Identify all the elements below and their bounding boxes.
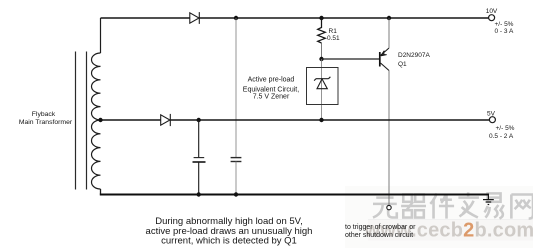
terminal 5V output [489,117,495,123]
note During abnormally high load on 5V... [146,216,313,247]
svg-text:Main Transformer: Main Transformer [19,119,73,126]
svg-text:0 - 3 A: 0 - 3 A [495,28,514,35]
char 件 [430,193,454,218]
note to trigger of crowbar or other shutdown circuit [345,224,416,239]
node dot 5V rail / zener [319,118,323,122]
svg-text:Active pre-load: Active pre-load [248,76,295,83]
wire winding top to 10V rail [100,18,102,53]
wire C2 bottom [235,161,237,194]
svg-text:other shutdown circuit: other shutdown circuit [345,232,413,239]
svg-text:+/- 5%: +/- 5% [496,125,515,132]
wire Q1 collector down to trigger terminal [388,71,390,206]
char 交 [458,192,479,217]
wire C1 vertical bottom [198,162,200,195]
resistor R1 [318,18,326,43]
wire C2 vertical (10V to plate) [235,18,237,157]
svg-text:current, which is detected by: current, which is detected by Q1 [161,236,297,247]
wire 5V rail [101,119,161,121]
node dot 5V rail / C1 [197,118,201,122]
wire base of Q1 [322,58,380,60]
terminal trigger output [387,205,391,209]
label Flyback Main Transformer [19,111,73,126]
char 网 [511,194,533,218]
svg-text:0.5 - 2 A: 0.5 - 2 A [489,133,514,140]
wire 10V top rail [101,17,190,19]
preload equivalent box [307,68,339,105]
wire zener vertical [321,59,323,120]
transformer T1 secondary winding [91,53,100,189]
char 易 [484,193,503,218]
node dot winding center tap [98,118,102,122]
node junction dot top rail / Q1 emitter [387,16,391,20]
svg-text:to trigger of crowbar or: to trigger of crowbar or [345,224,416,231]
node dot return rail / C1 [197,192,201,196]
node dot return rail / C2 [234,192,238,196]
zener diode DZ [314,77,330,89]
char 器 [401,194,426,217]
wire winding bottom to return rail [100,189,102,195]
wire Q1 emitter to 10V rail [388,18,390,48]
transformer T1 core [76,52,87,190]
svg-text:10V: 10V [486,8,498,15]
svg-text:Flyback: Flyback [32,111,56,118]
capacitor C1 [193,158,206,162]
svg-text:5V: 5V [487,111,496,118]
svg-text:+/- 5%: +/- 5% [495,21,514,28]
wire return (ground) rail [100,193,489,195]
svg-text:D2N2907A: D2N2907A [398,52,430,59]
svg-text:Q1: Q1 [398,61,407,68]
char 元 [373,198,397,218]
terminal 10V output [489,15,495,21]
label Active pre-load Equivalent Circuit, 7.5 V Zener [243,76,299,100]
ground symbol [483,195,494,205]
watermark chinese characters 元器件交易网 [373,192,533,218]
node junction dot top rail / C2 [234,16,238,20]
svg-text:0.51: 0.51 [327,35,340,42]
capacitor C2 [231,158,242,162]
diode D1 (10V rectifier) [190,12,200,24]
jpeg artifact band [345,186,533,248]
wire C1 vertical top [198,120,200,157]
transistor Q1 (PNP 2N2907A) [380,48,389,71]
diode D2 (5V rectifier) [161,114,171,126]
svg-text:7.5 V Zener: 7.5 V Zener [253,93,290,100]
node junction dot top rail / R1 [319,16,323,20]
node dot R1 bottom / Q1 base [319,57,323,61]
